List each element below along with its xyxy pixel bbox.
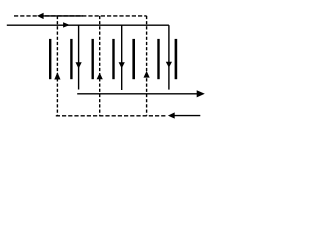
wire: top solid bus (net V+) — [7, 24, 169, 26]
wire: solid vertical S2 — [121, 25, 123, 90]
arrow: up arrow on D2 — [97, 73, 103, 79]
wire: bottom dashed bus — [56, 115, 166, 117]
electrode bar B7 — [175, 39, 178, 79]
electrode bar B6 — [157, 39, 159, 79]
wire: dashed vertical D1 — [56, 16, 58, 116]
wire: solid tail of top-left arrow — [42, 15, 84, 17]
electrode bar B2 — [70, 39, 72, 79]
wire: dashed vertical D2 — [99, 16, 101, 116]
arrow: rightward on top solid bus — [63, 22, 70, 27]
arrow: bottom leftward arrow on dashed bus — [168, 112, 175, 118]
wire: solid tail of bottom-left arrow — [175, 115, 201, 117]
electrode bar B5 — [132, 39, 135, 79]
wire: solid vertical S1 — [78, 25, 80, 89]
arrow: rightward output on bottom solid bus — [197, 90, 205, 97]
arrow: up arrow on D1 — [54, 72, 60, 79]
arrow: down arrow on S3 — [166, 62, 172, 68]
wire: bottom solid bus — [77, 93, 197, 95]
arrow: top-left, pointing left on dashed bus — [37, 13, 44, 19]
electrode bar B4 — [112, 39, 114, 79]
arrow: down arrow on S2 — [119, 62, 125, 68]
wire: solid vertical S3 — [168, 25, 170, 89]
arrow: down arrow on S1 — [76, 62, 82, 68]
electrode bar B1 — [49, 39, 51, 79]
wire: top dashed bus (net V-) — [14, 15, 147, 17]
electrode bar B3 — [91, 39, 93, 79]
wire: dashed vertical D3 — [146, 16, 148, 116]
arrow: up arrow on D3 — [144, 71, 150, 78]
